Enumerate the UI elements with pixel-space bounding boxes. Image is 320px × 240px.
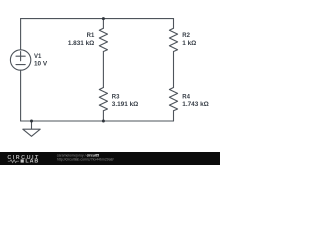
wire middle branch mid (R1 to R3) (102, 52, 104, 88)
svg-text:1.831 kΩ: 1.831 kΩ (68, 40, 94, 47)
svg-text:1.743 kΩ: 1.743 kΩ (182, 101, 208, 108)
wire left branch lower (V1 minus terminal to bottom net) (20, 70, 22, 121)
ground symbol (23, 121, 40, 136)
wire right branch bottom lead (R4 to bottom net) (173, 111, 175, 121)
node junction top (middle branch to top net) (102, 17, 105, 20)
svg-text:1 kΩ: 1 kΩ (182, 40, 196, 47)
svg-text:V1: V1 (34, 54, 42, 60)
V1 plus sign (16, 52, 25, 61)
node junction ground (ground to bottom net) (30, 120, 33, 123)
footer bar (0, 152, 220, 165)
svg-text:R4: R4 (182, 95, 190, 101)
wire top horizontal net (21, 18, 174, 20)
svg-text:R3: R3 (112, 95, 120, 101)
svg-text:R1: R1 (87, 33, 95, 39)
resistor R1 (99, 28, 107, 51)
wire right branch mid (R2 to R4) (173, 52, 175, 88)
node junction bottom (middle branch to bottom net) (102, 120, 105, 123)
resistor R3 (99, 88, 107, 111)
svg-text:3.191 kΩ: 3.191 kΩ (112, 101, 138, 108)
CircuitLab logo resistor squiggle (8, 160, 19, 163)
svg-text:LAB: LAB (25, 159, 39, 165)
voltage source V1 body (10, 50, 30, 70)
wire middle branch bottom lead (R3 to bottom net) (102, 111, 104, 121)
svg-text:10 V: 10 V (34, 60, 48, 67)
wire left branch upper (top net to V1 plus terminal) (20, 19, 22, 50)
wire middle branch top lead (node to R1) (102, 19, 104, 29)
svg-text:R2: R2 (182, 33, 190, 39)
resistor R4 (169, 88, 177, 111)
V1 minus sign (16, 64, 25, 66)
resistor R2 (169, 28, 177, 51)
CircuitLab logo LAB badge (21, 159, 24, 162)
svg-text:http://circuitlab.com/c/7kx44b: http://circuitlab.com/c/7kx44bm29a8/ (57, 157, 114, 161)
wire bottom horizontal net (21, 120, 174, 122)
wire right branch top lead (top net to R2) (173, 19, 175, 29)
